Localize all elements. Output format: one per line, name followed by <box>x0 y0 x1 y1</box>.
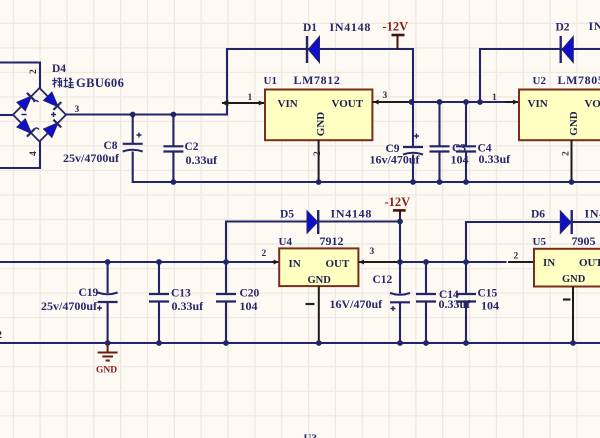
capacitor C13 plates <box>149 293 169 295</box>
capacitor C19 top lead <box>107 262 109 293</box>
C9 plus sign <box>414 134 419 139</box>
junction C20 and D5 branch <box>223 259 229 265</box>
U5 pin 1 number rotated (dash) <box>563 298 571 300</box>
svg-text:C19: C19 <box>79 287 99 299</box>
svg-text:2: 2 <box>313 151 323 156</box>
capacitor C20 top lead <box>225 262 227 294</box>
capacitor C14 plates <box>416 293 436 295</box>
svg-text:VOUT: VOUT <box>585 98 600 110</box>
capacitor C8 bottom lead <box>132 152 134 184</box>
capacitor C19 plates polarized <box>98 293 118 295</box>
capacitor C8 top lead <box>132 115 134 144</box>
wire riser to D1 anode line <box>226 49 228 116</box>
svg-text:2: 2 <box>262 249 267 259</box>
svg-text:D1: D1 <box>303 22 317 34</box>
svg-text:U3: U3 <box>304 433 318 438</box>
capacitor C9 top lead <box>412 102 414 147</box>
regulator U2 LM7805 body <box>519 90 600 141</box>
wire AC input top to bridge pin 2 <box>0 61 41 63</box>
junction C9 on rail <box>410 179 416 185</box>
wire U4 out to U5 in <box>399 261 507 263</box>
junction C8 tap <box>130 112 136 118</box>
junction C15 and D6 branch <box>463 259 469 265</box>
capacitor C9 bottom lead <box>412 155 414 184</box>
capacitor C12 plates polarized <box>390 293 410 295</box>
junction D5 wire to -12V stem <box>397 219 403 225</box>
capacitor C4 plates <box>456 145 476 147</box>
capacitor C13 bottom lead <box>158 302 160 344</box>
svg-text:GND: GND <box>315 112 327 137</box>
junction C3 tap <box>437 99 443 105</box>
diode D2 triangle <box>562 36 573 62</box>
U5 pin 2 stub <box>508 261 535 263</box>
diode D6 triangle <box>560 211 571 234</box>
power symbol -12V top <box>392 34 405 37</box>
junction C14 tap <box>423 259 429 265</box>
svg-text:0.33uf: 0.33uf <box>172 299 205 313</box>
U4 pin 2 stub <box>272 261 280 263</box>
capacitor C4 bottom lead <box>465 152 467 183</box>
bottom main wire from left edge <box>0 261 274 263</box>
wire D5 horizontal run <box>225 220 400 222</box>
svg-text:-12V: -12V <box>385 195 411 209</box>
svg-text:0.33uf: 0.33uf <box>479 152 512 166</box>
U1 pin 3 stub <box>372 101 412 103</box>
svg-text:GND: GND <box>96 366 117 376</box>
junction C12 on rail <box>397 340 403 346</box>
junction C14 on rail <box>423 340 429 346</box>
svg-text:25v/4700uf: 25v/4700uf <box>41 299 98 313</box>
wire riser to D2 line <box>479 49 481 103</box>
capacitor C9 plates polarized <box>403 146 423 148</box>
U4 pin 1 number rotated (dash) <box>306 303 315 305</box>
junction C19 and GND on rail <box>105 340 111 346</box>
wire AC input left to bridge pin 1 <box>0 114 14 116</box>
svg-text:GBU606: GBU606 <box>76 76 124 90</box>
svg-text:LM7805: LM7805 <box>558 73 600 87</box>
svg-text:IN: IN <box>543 257 555 269</box>
svg-text:VIN: VIN <box>528 98 548 110</box>
C12 plus sign <box>391 306 396 311</box>
wire D1 horizontal run <box>226 48 414 50</box>
svg-text:7912: 7912 <box>320 234 344 248</box>
U1 pin 1 arrowhead at box <box>259 101 264 106</box>
regulator U1 LM7812 body <box>265 90 372 141</box>
U1 pin 1 arrowhead outer <box>221 100 228 107</box>
capacitor C3 bottom lead <box>438 152 440 183</box>
capacitor C19 bottom lead <box>107 302 109 343</box>
capacitor C14 top lead <box>425 262 427 294</box>
capacitor C12 top lead <box>399 262 401 294</box>
capacitor C20 bottom lead <box>225 302 227 344</box>
bridge D4 polarity marks <box>34 101 40 130</box>
svg-text:4: 4 <box>29 151 39 156</box>
junction C2 on ground rail <box>171 179 177 185</box>
capacitor C14 bottom lead <box>425 302 427 344</box>
svg-text:IN: IN <box>289 258 301 270</box>
wire riser to D5 line <box>225 222 227 263</box>
junction D2 branch <box>477 99 483 105</box>
capacitor C8 plates polarized <box>123 143 143 145</box>
svg-text:IN4148: IN4148 <box>330 20 372 34</box>
U1 pin 3 arrowhead <box>373 100 378 105</box>
svg-text:104: 104 <box>481 299 499 313</box>
svg-text:2: 2 <box>562 151 572 156</box>
diode D5 cathode bar <box>317 210 319 234</box>
wire -12V node down to bottom main wire <box>399 216 401 262</box>
junction -12V node <box>397 259 403 265</box>
junction C2 tap <box>171 112 177 118</box>
svg-text:D6: D6 <box>531 209 545 221</box>
junction U4 GND on rail <box>316 340 322 346</box>
U4 pin 2 arrowhead <box>274 260 279 265</box>
svg-text:3: 3 <box>370 247 375 257</box>
bridge D4 diode top-left <box>17 96 32 111</box>
junction C20 on rail <box>223 340 229 346</box>
svg-text:VIN: VIN <box>278 98 298 110</box>
junction VOUT-D1 node <box>409 99 415 105</box>
svg-text:VOUT: VOUT <box>332 98 364 110</box>
capacitor C3 plates <box>430 145 450 147</box>
svg-text:1: 1 <box>492 93 497 103</box>
label qiaodui GBU606 <box>52 78 74 88</box>
U4 pin 3 stub <box>358 261 399 263</box>
junction C19 tap <box>105 259 111 265</box>
wire D6 horizontal run <box>465 221 600 223</box>
capacitor C12 bottom lead <box>399 302 401 343</box>
svg-text:1: 1 <box>248 93 253 103</box>
svg-text:16v/470uf: 16v/470uf <box>370 153 421 167</box>
capacitor C2 bottom lead <box>172 152 174 183</box>
svg-text:D2: D2 <box>556 22 570 34</box>
U2 pin 2 GND stub <box>571 140 573 182</box>
bottom ground rail <box>0 342 600 344</box>
U2 pin 1 stub <box>505 101 520 103</box>
svg-text:25v/4700uf: 25v/4700uf <box>63 151 120 165</box>
svg-text:3: 3 <box>383 91 388 101</box>
svg-text:C12: C12 <box>373 274 393 286</box>
diode D2 IN4148 cathode bar <box>560 36 562 63</box>
capacitor C15 top lead <box>465 262 467 294</box>
wire AC input bottom to bridge pin 4 <box>0 167 41 169</box>
junction C15 on rail <box>463 340 469 346</box>
capacitor C15 plates <box>456 293 476 295</box>
junction U5 GND on rail <box>570 340 576 346</box>
U4 pin 3 arrowhead <box>359 260 364 265</box>
diode D1 IN4148 cathode bar <box>306 36 308 63</box>
junction U1 GND on rail <box>316 179 322 185</box>
C8 plus sign <box>137 133 142 138</box>
svg-text:2: 2 <box>514 252 519 262</box>
wire drop from D1 cathode run to VOUT node <box>412 49 414 103</box>
wire D2 horizontal run <box>479 48 600 50</box>
svg-text:LM7812: LM7812 <box>294 73 341 87</box>
U1 pin 1 stub <box>222 102 265 104</box>
U1 pin 2 GND stub <box>318 140 320 182</box>
svg-text:7905: 7905 <box>572 234 596 248</box>
capacitor C4 top lead <box>465 102 467 146</box>
regulator U4 7912 body <box>279 248 358 286</box>
junction C13 on rail <box>156 340 162 346</box>
svg-text:GND: GND <box>308 275 332 286</box>
svg-text:IN4148: IN4148 <box>585 207 600 221</box>
junction C4 tap <box>463 99 469 105</box>
diode D1 triangle <box>308 36 319 62</box>
diode D6 cathode bar <box>571 210 573 234</box>
svg-text:U1: U1 <box>264 75 277 87</box>
svg-text:C20: C20 <box>240 288 260 300</box>
capacitor C20 plates <box>216 293 236 295</box>
C19 plus sign <box>97 306 102 311</box>
capacitor C15 bottom lead <box>465 302 467 344</box>
svg-text:OUT: OUT <box>326 258 351 270</box>
svg-text:D5: D5 <box>280 209 294 221</box>
svg-text:U4: U4 <box>279 236 293 248</box>
svg-text:0.33uf: 0.33uf <box>186 153 219 167</box>
ground symbol <box>107 343 109 353</box>
junction C3 on rail <box>437 179 443 185</box>
wire bridge output pin3 to corner <box>66 113 228 115</box>
top ground rail <box>133 181 600 183</box>
capacitor C2 top lead <box>172 115 174 147</box>
svg-text:GND: GND <box>562 274 586 285</box>
svg-text:2: 2 <box>0 330 2 341</box>
svg-text:U2: U2 <box>533 75 547 87</box>
wire riser to D6 line <box>465 222 467 262</box>
svg-text:16V/470uf: 16V/470uf <box>330 297 384 311</box>
svg-text:IN4148: IN4148 <box>331 207 373 221</box>
junction C4 on rail <box>463 179 469 185</box>
junction C13 tap <box>156 259 162 265</box>
regulator U5 7905 body <box>534 249 600 287</box>
U2 pin 1 arrowhead at box <box>513 100 518 105</box>
svg-text:-12V: -12V <box>383 20 409 34</box>
svg-text:C13: C13 <box>171 288 191 300</box>
U4 pin 1 GND stub <box>318 286 320 343</box>
power symbol -12V bottom <box>393 209 406 212</box>
bridge D4 diode bottom-right <box>44 123 59 138</box>
U5 pin 1 GND stub <box>572 287 574 344</box>
svg-text:IN4148: IN4148 <box>589 19 600 33</box>
svg-text:D4: D4 <box>52 63 66 75</box>
bridge D4 diode bottom-left <box>17 119 32 134</box>
capacitor C2 plates <box>163 145 183 147</box>
svg-text:U5: U5 <box>533 236 547 248</box>
svg-text:2: 2 <box>29 69 39 74</box>
capacitor C3 top lead <box>438 102 440 146</box>
junction U2 GND on rail <box>569 179 575 185</box>
capacitor C13 top lead <box>158 262 160 294</box>
svg-text:OUT: OUT <box>579 257 600 269</box>
svg-text:104: 104 <box>240 299 258 313</box>
bridge rectifier D4 GBU606 diamond body <box>13 88 66 142</box>
wire VOUT rail U1 to U2 <box>413 101 506 103</box>
svg-text:C2: C2 <box>185 141 199 153</box>
bridge D4 diode top-right <box>44 92 59 107</box>
svg-text:GND: GND <box>568 111 580 136</box>
diode D5 triangle <box>307 211 318 234</box>
